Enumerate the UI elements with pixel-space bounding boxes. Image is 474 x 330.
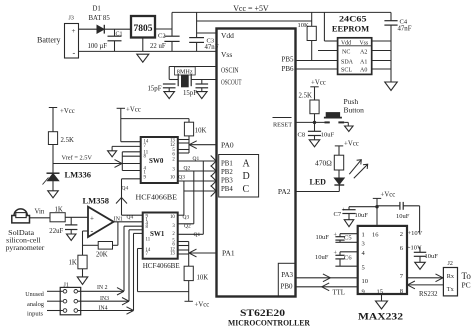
svg-text:LM358: LM358 bbox=[83, 195, 109, 205]
svg-text:IN4: IN4 bbox=[99, 305, 108, 311]
svg-text:-: - bbox=[91, 227, 94, 236]
svg-text:15pF: 15pF bbox=[148, 86, 162, 93]
svg-text:4: 4 bbox=[362, 250, 366, 257]
svg-text:+Vcc: +Vcc bbox=[126, 107, 141, 114]
svg-text:10uF: 10uF bbox=[316, 234, 330, 241]
svg-text:20K: 20K bbox=[96, 251, 108, 258]
svg-text:D1: D1 bbox=[93, 6, 101, 13]
svg-text:Q4: Q4 bbox=[127, 214, 134, 220]
svg-text:3: 3 bbox=[362, 241, 365, 248]
svg-text:RS232: RS232 bbox=[419, 291, 438, 298]
svg-text:EEPROM: EEPROM bbox=[332, 24, 369, 34]
svg-text:MAX232: MAX232 bbox=[358, 311, 404, 321]
svg-text:6: 6 bbox=[400, 245, 404, 252]
svg-text:22 uF: 22 uF bbox=[150, 43, 166, 50]
svg-text:+10V: +10V bbox=[408, 230, 423, 237]
svg-text:+: + bbox=[342, 208, 346, 214]
svg-text:2: 2 bbox=[172, 232, 175, 237]
svg-text:analog: analog bbox=[27, 301, 45, 308]
svg-text:Q1: Q1 bbox=[193, 156, 200, 162]
svg-text:To: To bbox=[462, 271, 472, 281]
svg-text:Vref = 2.5V: Vref = 2.5V bbox=[62, 155, 93, 162]
svg-text:Vcc = +5V: Vcc = +5V bbox=[233, 4, 269, 13]
svg-text:10uF: 10uF bbox=[355, 212, 369, 219]
svg-text:-: - bbox=[73, 49, 76, 58]
svg-text:SW0: SW0 bbox=[149, 157, 164, 165]
svg-text:NC: NC bbox=[342, 49, 350, 55]
svg-text:J3: J3 bbox=[69, 16, 74, 22]
svg-text:Tx: Tx bbox=[447, 286, 455, 293]
svg-text:LED: LED bbox=[310, 177, 327, 186]
svg-text:10: 10 bbox=[170, 215, 175, 220]
svg-text:10: 10 bbox=[362, 278, 369, 285]
svg-text:2: 2 bbox=[400, 231, 403, 238]
svg-text:Q3: Q3 bbox=[183, 215, 190, 221]
svg-text:+Vcc: +Vcc bbox=[195, 302, 210, 309]
svg-text:BAT 85: BAT 85 bbox=[89, 15, 111, 22]
svg-text:C5: C5 bbox=[344, 234, 352, 241]
svg-text:+: + bbox=[72, 27, 76, 35]
svg-text:9: 9 bbox=[144, 176, 147, 181]
svg-text:PB2: PB2 bbox=[221, 169, 233, 176]
svg-text:7: 7 bbox=[400, 273, 404, 280]
svg-text:C: C bbox=[243, 184, 250, 195]
svg-text:1K: 1K bbox=[55, 207, 63, 214]
svg-text:Battery: Battery bbox=[37, 36, 61, 45]
svg-text:RESET: RESET bbox=[273, 122, 292, 129]
svg-text:C7: C7 bbox=[334, 211, 342, 218]
svg-text:IN3: IN3 bbox=[100, 296, 109, 302]
svg-text:Vss: Vss bbox=[221, 50, 232, 59]
svg-text:+: + bbox=[90, 214, 94, 222]
svg-text:Button: Button bbox=[344, 106, 365, 115]
svg-text:2.5K: 2.5K bbox=[61, 137, 74, 144]
svg-text:24C65: 24C65 bbox=[339, 13, 367, 23]
svg-text:10K: 10K bbox=[195, 128, 207, 135]
svg-text:10K: 10K bbox=[197, 275, 209, 282]
svg-text:J2: J2 bbox=[448, 261, 453, 267]
svg-text:13: 13 bbox=[170, 252, 175, 257]
svg-text:C8: C8 bbox=[298, 132, 306, 139]
svg-text:SW1: SW1 bbox=[150, 230, 165, 238]
svg-text:10uF: 10uF bbox=[425, 253, 439, 260]
svg-text:Q2: Q2 bbox=[184, 165, 191, 171]
svg-text:10uF: 10uF bbox=[321, 132, 335, 139]
svg-text:+Vcc: +Vcc bbox=[311, 79, 326, 86]
svg-text:MICROCONTROLLER: MICROCONTROLLER bbox=[228, 318, 311, 328]
svg-text:HCF4066BE: HCF4066BE bbox=[143, 261, 180, 270]
svg-text:pyranometer: pyranometer bbox=[6, 244, 45, 252]
svg-text:PC: PC bbox=[462, 281, 471, 290]
svg-text:5: 5 bbox=[362, 265, 365, 272]
svg-text:C2: C2 bbox=[158, 33, 166, 40]
svg-text:3: 3 bbox=[172, 167, 175, 172]
svg-text:9: 9 bbox=[362, 288, 365, 295]
svg-text:OSCOUT: OSCOUT bbox=[221, 78, 242, 86]
svg-text:1: 1 bbox=[362, 232, 365, 239]
svg-text:7805: 7805 bbox=[134, 24, 153, 34]
svg-text:+Vcc: +Vcc bbox=[381, 192, 396, 199]
svg-text:+Vcc: +Vcc bbox=[60, 108, 75, 115]
svg-text:Q3: Q3 bbox=[178, 175, 185, 181]
svg-text:SCL: SCL bbox=[341, 68, 352, 74]
svg-text:Unused: Unused bbox=[25, 291, 44, 298]
svg-text:100 µF: 100 µF bbox=[88, 43, 108, 50]
svg-text:PA2: PA2 bbox=[278, 187, 291, 196]
svg-text:IN1: IN1 bbox=[114, 217, 123, 223]
svg-text:PB6: PB6 bbox=[281, 65, 294, 73]
svg-text:10K: 10K bbox=[298, 22, 310, 29]
svg-text:+: + bbox=[334, 233, 338, 239]
svg-text:8: 8 bbox=[400, 288, 403, 295]
svg-text:PB5: PB5 bbox=[281, 56, 294, 64]
svg-text:PA3: PA3 bbox=[281, 271, 293, 279]
svg-text:Q4: Q4 bbox=[122, 185, 129, 191]
svg-text:2: 2 bbox=[172, 157, 175, 162]
svg-text:+Vcc: +Vcc bbox=[344, 141, 359, 148]
svg-text:TTL: TTL bbox=[333, 289, 345, 296]
svg-text:Q1: Q1 bbox=[194, 232, 201, 238]
svg-text:22uF: 22uF bbox=[49, 228, 63, 235]
svg-text:Q2: Q2 bbox=[184, 223, 191, 229]
svg-text:470Ω: 470Ω bbox=[315, 158, 332, 167]
svg-text:Vdd: Vdd bbox=[341, 40, 351, 46]
svg-text:PA1: PA1 bbox=[222, 248, 235, 257]
svg-text:10uF: 10uF bbox=[315, 254, 329, 261]
svg-text:47nF: 47nF bbox=[398, 25, 412, 32]
svg-text:8MHz: 8MHz bbox=[177, 68, 193, 75]
svg-text:PA0: PA0 bbox=[221, 140, 234, 149]
svg-text:PB0: PB0 bbox=[280, 282, 293, 290]
svg-text:LM336: LM336 bbox=[65, 170, 91, 180]
svg-text:10uF: 10uF bbox=[396, 213, 410, 220]
svg-text:7: 7 bbox=[144, 144, 147, 149]
svg-text:2.5K: 2.5K bbox=[299, 93, 312, 100]
svg-text:11: 11 bbox=[146, 237, 151, 242]
svg-text:C1: C1 bbox=[116, 32, 123, 38]
svg-text:PB3: PB3 bbox=[221, 178, 233, 185]
svg-text:PB1: PB1 bbox=[221, 161, 233, 168]
svg-text:Rx: Rx bbox=[447, 273, 455, 280]
svg-text:Vss: Vss bbox=[360, 40, 369, 46]
svg-text:A2: A2 bbox=[360, 49, 367, 55]
svg-text:15pF: 15pF bbox=[183, 90, 197, 97]
svg-text:inputs: inputs bbox=[27, 310, 43, 317]
svg-text:8: 8 bbox=[146, 225, 149, 230]
svg-text:A1: A1 bbox=[360, 59, 367, 65]
svg-text:SDA: SDA bbox=[341, 59, 354, 65]
svg-text:1K: 1K bbox=[69, 259, 77, 266]
svg-text:IN 2: IN 2 bbox=[97, 285, 108, 291]
svg-text:A0: A0 bbox=[360, 68, 367, 74]
svg-text:A: A bbox=[243, 158, 251, 169]
svg-text:C6: C6 bbox=[344, 255, 352, 262]
svg-text:PB4: PB4 bbox=[221, 186, 233, 193]
svg-text:HCF4066BE: HCF4066BE bbox=[136, 192, 178, 201]
svg-text:Vin: Vin bbox=[35, 209, 45, 216]
svg-text:Vdd: Vdd bbox=[221, 31, 234, 40]
svg-text:10: 10 bbox=[170, 176, 175, 181]
svg-text:D: D bbox=[243, 171, 250, 182]
svg-text:OSCIN: OSCIN bbox=[221, 66, 239, 74]
svg-text:3: 3 bbox=[172, 224, 175, 229]
svg-text:16: 16 bbox=[372, 232, 379, 239]
